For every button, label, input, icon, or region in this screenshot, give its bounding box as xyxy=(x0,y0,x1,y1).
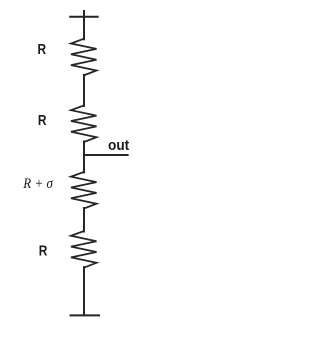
bottom terminal bar xyxy=(71,314,100,316)
wire: out branch xyxy=(84,154,128,156)
resistor R2 xyxy=(71,105,97,142)
resistor R4 xyxy=(71,231,97,268)
svg-text:R: R xyxy=(39,242,48,259)
svg-text:R + σ: R + σ xyxy=(22,176,53,192)
svg-text:R: R xyxy=(38,41,47,58)
wire: top tick through terminal down to R1 xyxy=(83,11,85,39)
wire: R1 to R2 xyxy=(83,75,85,106)
svg-text:R: R xyxy=(38,112,47,129)
wire: R3 to R4 xyxy=(83,208,85,232)
top terminal bar xyxy=(70,16,98,18)
resistor R3 xyxy=(71,172,97,209)
wire: R2 to R3 through out node xyxy=(83,142,85,173)
wire: R4 to bottom terminal xyxy=(83,267,85,315)
resistor R1 xyxy=(71,39,97,76)
svg-text:out: out xyxy=(108,137,129,154)
